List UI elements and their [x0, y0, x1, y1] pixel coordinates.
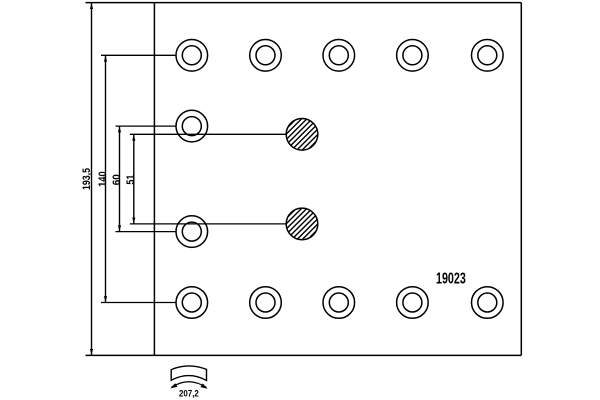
- rivet hole row1 col3: [323, 40, 355, 72]
- dimension line 193,5: [90, 3, 93, 356]
- leader row3 rivet: [116, 231, 177, 233]
- lining cross-section symbol: [171, 366, 206, 381]
- leader row4 rivet: [101, 302, 177, 304]
- rivet hole row4 col5: [472, 287, 504, 319]
- dimension line 51: [132, 134, 135, 224]
- hatched guide hole row3: [259, 202, 345, 246]
- rivet hole row2 col1: [176, 110, 208, 142]
- dimension line 140: [104, 55, 107, 302]
- rivet hole row1 col5: [472, 40, 504, 72]
- plate outline right edge: [520, 3, 522, 356]
- rivet hole row4 col2: [250, 287, 282, 319]
- plate outline top edge (with extension to dimension line): [86, 2, 522, 4]
- rivet hole row4 col3: [323, 287, 355, 319]
- svg-text:60: 60: [111, 174, 123, 185]
- plate outline left edge: [153, 3, 155, 356]
- svg-text:193,5: 193,5: [81, 168, 93, 190]
- rivet hole row1 col4: [397, 40, 429, 72]
- leader row3 hatched hole: [130, 223, 287, 225]
- hatched guide hole row2: [259, 112, 345, 156]
- width arc arrow 207,2: [170, 382, 207, 389]
- leader row2 rivet: [116, 125, 177, 127]
- rivet hole row4 col4: [397, 287, 429, 319]
- rivet hole row3 col1: [176, 216, 208, 248]
- plate outline bottom edge (with extension to dimension line): [86, 354, 522, 356]
- rivet hole row4 col1: [176, 287, 208, 319]
- leader row1 rivet: [101, 54, 177, 56]
- rivet hole row1 col2: [250, 40, 282, 72]
- rivet hole row1 col1: [176, 40, 208, 72]
- svg-text:140: 140: [97, 171, 109, 187]
- dimension line 60: [118, 126, 121, 232]
- svg-text:19023: 19023: [436, 271, 466, 288]
- leader row2 hatched hole: [130, 133, 287, 135]
- svg-text:207,2: 207,2: [179, 388, 199, 399]
- svg-text:51: 51: [125, 175, 137, 185]
